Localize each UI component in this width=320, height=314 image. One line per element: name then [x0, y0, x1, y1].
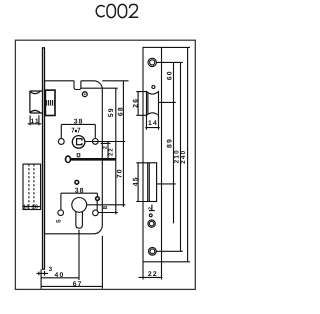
latch centre line: [159, 101, 176, 103]
chain dim 60-89: [173, 62, 175, 223]
right plate outline: [143, 47, 162, 261]
euro screw left: [58, 210, 64, 216]
dim 26: [136, 92, 146, 116]
svg-text:38: 38: [75, 187, 85, 194]
svg-text:26: 26: [132, 98, 139, 108]
dim 38 upper line: [61, 124, 95, 138]
follower left post: [58, 139, 64, 145]
deadbolt thrown: [23, 164, 41, 209]
dim 22 bottom: [139, 262, 163, 280]
svg-text:60: 60: [166, 70, 173, 80]
screw holes line: [98, 212, 118, 214]
follower right post: [92, 139, 98, 145]
svg-text:240: 240: [180, 150, 187, 164]
deadbolt centre line: [157, 183, 176, 185]
svg-text:40: 40: [55, 272, 65, 279]
svg-text:70: 70: [116, 168, 123, 178]
border frame: [15, 40, 195, 289]
svg-text:10: 10: [23, 205, 29, 211]
svg-text:8: 8: [102, 205, 109, 210]
svg-text:45: 45: [132, 176, 139, 186]
plate small hole upper: [152, 86, 155, 89]
dim 3: [37, 269, 49, 289]
svg-text:7■7: 7■7: [71, 127, 80, 134]
svg-text:10: 10: [32, 205, 38, 211]
pin donut: [96, 197, 100, 201]
dim 14: [145, 115, 159, 130]
euro screw right: [93, 210, 99, 216]
latch bolt head: [30, 91, 42, 113]
svg-text:68: 68: [117, 106, 124, 116]
keyhole shaft: [71, 159, 116, 161]
title C002: [96, 4, 137, 17]
svg-text:38: 38: [74, 119, 84, 126]
plate mid screw: [148, 220, 155, 227]
dim 67: [41, 236, 102, 289]
dim 210 line: [180, 62, 182, 251]
dim 11 latch: [28, 115, 41, 125]
svg-text:89: 89: [167, 138, 174, 148]
euro cylinder profile: [72, 198, 87, 213]
plate bottom screw: [149, 247, 157, 255]
svg-text:11: 11: [31, 118, 40, 125]
deadbolt cutout: [148, 163, 157, 202]
svg-text:3: 3: [49, 266, 54, 273]
dim 38 lower line: [61, 193, 98, 210]
euro centre line: [87, 204, 126, 206]
dim 240 line: [162, 47, 191, 261]
latch cutout: [147, 92, 159, 116]
svg-text:14: 14: [148, 120, 158, 127]
svg-text:5: 5: [56, 218, 63, 223]
plate top screw: [148, 58, 156, 66]
svg-text:59: 59: [108, 107, 115, 117]
screw hole top: [82, 92, 87, 97]
small square glyph: [77, 154, 80, 157]
dim 59 line: [81, 88, 118, 214]
dim 22 line: [107, 142, 109, 160]
dim 45: [136, 163, 147, 202]
svg-text:22: 22: [107, 147, 114, 156]
follower hub: [72, 136, 85, 149]
dim 68-70 line: [102, 81, 128, 207]
small donut mid: [75, 180, 79, 184]
svg-text:67: 67: [73, 281, 83, 288]
dim 2 lip: [149, 205, 155, 211]
follower centre line: [85, 142, 125, 144]
top notch: [74, 81, 81, 90]
dim 40: [41, 230, 79, 280]
svg-text:22: 22: [148, 271, 158, 278]
plate small hole lower: [149, 214, 152, 217]
faceplate strip: [42, 48, 45, 269]
keyhole oval: [66, 156, 71, 162]
latch body hatched block: [45, 90, 55, 115]
svg-text:2: 2: [148, 206, 154, 210]
lock case body: [45, 81, 103, 234]
